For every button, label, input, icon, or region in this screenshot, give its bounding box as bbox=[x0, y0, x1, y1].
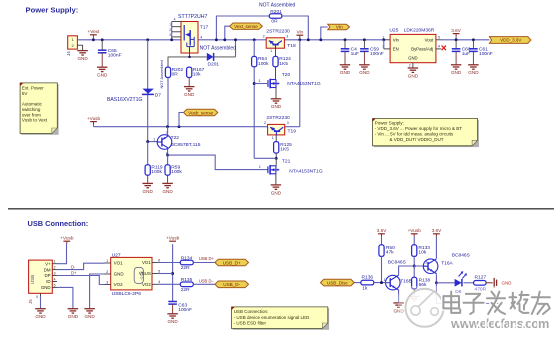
svg-text:GND: GND bbox=[408, 73, 419, 78]
svg-text:R136: R136 bbox=[362, 275, 374, 281]
svg-text:GND: GND bbox=[271, 104, 282, 109]
svg-text:5V: 5V bbox=[22, 91, 28, 96]
svg-text:100k: 100k bbox=[258, 61, 269, 67]
svg-text:USB D-: USB D- bbox=[199, 278, 214, 283]
svg-text:VO1: VO1 bbox=[142, 260, 151, 265]
svg-text:GND: GND bbox=[167, 319, 178, 324]
svg-text:47k: 47k bbox=[386, 250, 394, 256]
svg-text:GND: GND bbox=[41, 285, 51, 290]
svg-text:100nF: 100nF bbox=[479, 51, 493, 57]
svg-text:GND: GND bbox=[162, 189, 173, 194]
svg-text:USB D+: USB D+ bbox=[199, 256, 215, 261]
svg-text:ESD: ESD bbox=[139, 271, 144, 279]
svg-text:22R: 22R bbox=[181, 265, 190, 271]
svg-text:LDK220M36R: LDK220M36R bbox=[404, 28, 435, 34]
svg-text:100k: 100k bbox=[151, 169, 162, 175]
svg-text:3: 3 bbox=[287, 121, 289, 125]
svg-text:3.6V: 3.6V bbox=[451, 28, 462, 33]
svg-text:GND: GND bbox=[77, 56, 88, 61]
svg-text:3: 3 bbox=[106, 280, 108, 284]
svg-text:+Vusb: +Vusb bbox=[60, 236, 74, 241]
svg-text:V+: V+ bbox=[45, 261, 51, 266]
svg-text:USB_D-: USB_D- bbox=[223, 282, 240, 287]
svg-text:Power Supply:: Power Supply: bbox=[26, 6, 79, 15]
svg-text:100nF: 100nF bbox=[108, 53, 122, 59]
svg-text:BAS16XV2T1G: BAS16XV2T1G bbox=[107, 97, 142, 103]
svg-text:USB Connection:: USB Connection: bbox=[234, 309, 269, 314]
svg-text:3.6V: 3.6V bbox=[432, 228, 443, 233]
svg-text:DP: DP bbox=[44, 273, 50, 278]
svg-text:4: 4 bbox=[158, 280, 160, 284]
svg-text:0: 0 bbox=[36, 295, 38, 299]
svg-text:R127: R127 bbox=[475, 275, 487, 281]
svg-text:D201: D201 bbox=[208, 61, 220, 67]
svg-text:GND: GND bbox=[35, 314, 46, 319]
svg-text:5: 5 bbox=[438, 35, 440, 39]
svg-text:0R: 0R bbox=[271, 19, 278, 25]
svg-text:R134: R134 bbox=[181, 255, 193, 261]
svg-text:USB_Disc: USB_Disc bbox=[327, 280, 349, 285]
svg-text:4: 4 bbox=[54, 278, 56, 282]
svg-text:5: 5 bbox=[54, 283, 56, 287]
svg-text:GND: GND bbox=[143, 189, 154, 194]
svg-text:3: 3 bbox=[169, 33, 171, 37]
svg-text:100nF: 100nF bbox=[370, 51, 384, 57]
svg-text:+Vusb: +Vusb bbox=[166, 236, 180, 241]
svg-text:Vin: Vin bbox=[296, 30, 303, 35]
svg-text:USB Connection:: USB Connection: bbox=[28, 219, 89, 228]
svg-text:2: 2 bbox=[425, 260, 427, 264]
svg-text:Vext_sense: Vext_sense bbox=[234, 24, 258, 29]
svg-text:GND: GND bbox=[68, 314, 79, 319]
svg-text:2: 2 bbox=[409, 63, 411, 67]
svg-text:1: 1 bbox=[270, 49, 272, 53]
svg-text:NTA4153NT1G: NTA4153NT1G bbox=[289, 168, 323, 174]
svg-text:1: 1 bbox=[259, 165, 261, 169]
svg-text:1: 1 bbox=[54, 260, 56, 264]
svg-text:GND: GND bbox=[97, 73, 108, 78]
svg-text:1: 1 bbox=[169, 23, 171, 27]
svg-text:VO1: VO1 bbox=[114, 261, 124, 266]
svg-text:GND: GND bbox=[468, 70, 479, 75]
svg-text:4: 4 bbox=[438, 44, 440, 48]
svg-text:2: 2 bbox=[264, 121, 266, 125]
svg-text:2: 2 bbox=[54, 266, 56, 270]
svg-text:GND: GND bbox=[184, 92, 195, 97]
svg-text:T16B: T16B bbox=[400, 279, 412, 285]
svg-text:- USB device enumeration signa: - USB device enumeration signal LED bbox=[234, 315, 310, 320]
svg-text:USBLC6-2P6: USBLC6-2P6 bbox=[112, 291, 142, 297]
svg-text:over from: over from bbox=[22, 112, 41, 117]
svg-text:+Vusb: +Vusb bbox=[408, 228, 422, 233]
svg-text:+Vext: +Vext bbox=[87, 29, 100, 34]
svg-text:T22: T22 bbox=[171, 135, 180, 141]
svg-text:BC846S: BC846S bbox=[452, 252, 471, 258]
svg-text:6: 6 bbox=[158, 258, 160, 262]
svg-text:ByPass/Adj: ByPass/Adj bbox=[411, 47, 433, 52]
svg-text:Power Supply:: Power Supply: bbox=[375, 121, 404, 126]
svg-text:switching: switching bbox=[22, 107, 41, 112]
svg-text:1: 1 bbox=[272, 136, 274, 140]
svg-text:+Vusb: +Vusb bbox=[87, 116, 101, 121]
svg-text:5: 5 bbox=[158, 269, 160, 273]
svg-text:Vout: Vout bbox=[425, 38, 434, 43]
svg-text:J4: J4 bbox=[66, 51, 71, 56]
svg-text:22R: 22R bbox=[181, 287, 190, 293]
svg-text:1: 1 bbox=[384, 278, 386, 282]
svg-text:1uF: 1uF bbox=[462, 51, 470, 57]
svg-text:Vin: Vin bbox=[336, 25, 343, 31]
svg-text:DM: DM bbox=[44, 267, 51, 272]
svg-text:GND: GND bbox=[340, 70, 351, 75]
svg-text:T20: T20 bbox=[282, 72, 291, 78]
svg-text:D-: D- bbox=[71, 265, 76, 270]
svg-text:BC846S: BC846S bbox=[388, 259, 407, 265]
svg-text:2STR2230: 2STR2230 bbox=[266, 115, 290, 121]
svg-text:GND: GND bbox=[359, 70, 370, 75]
svg-text:GND: GND bbox=[408, 55, 418, 60]
svg-text:4: 4 bbox=[174, 18, 176, 22]
svg-text:GND: GND bbox=[451, 70, 462, 75]
svg-text:BC857BT,115: BC857BT,115 bbox=[171, 142, 201, 148]
svg-text:NTA4153NT1G: NTA4153NT1G bbox=[287, 81, 321, 87]
svg-text:1uF: 1uF bbox=[351, 51, 359, 57]
svg-text:Vin: Vin bbox=[393, 38, 400, 43]
svg-text:VO2: VO2 bbox=[142, 282, 151, 287]
svg-text:1K5: 1K5 bbox=[279, 61, 288, 67]
svg-text:0R: 0R bbox=[172, 72, 179, 78]
svg-text:1: 1 bbox=[106, 259, 108, 263]
svg-text:GND: GND bbox=[84, 314, 95, 319]
svg-text:100nF: 100nF bbox=[178, 307, 192, 313]
svg-text:GND: GND bbox=[271, 190, 282, 195]
svg-text:- VDD_3.6V ... Power supply fo: - VDD_3.6V ... Power supply for micro & … bbox=[375, 126, 463, 131]
svg-text:ID: ID bbox=[46, 279, 50, 284]
svg-text:10k: 10k bbox=[193, 72, 201, 78]
svg-text:USB: USB bbox=[30, 275, 35, 284]
svg-text:T19: T19 bbox=[288, 128, 297, 134]
svg-text:VO2: VO2 bbox=[114, 282, 124, 287]
svg-text:2: 2 bbox=[106, 270, 108, 274]
svg-text:NOT Assembled: NOT Assembled bbox=[200, 45, 237, 51]
svg-text:D+: D+ bbox=[71, 270, 77, 275]
svg-text:VDD_3.6V: VDD_3.6V bbox=[500, 38, 521, 43]
svg-text:T17: T17 bbox=[200, 25, 209, 31]
svg-text:T21: T21 bbox=[282, 158, 291, 164]
svg-text:Automatic: Automatic bbox=[22, 102, 43, 107]
svg-text:GND: GND bbox=[502, 281, 513, 286]
svg-text:Ext. Power: Ext. Power bbox=[22, 86, 44, 91]
svg-text:R135: R135 bbox=[181, 277, 193, 283]
svg-text:100k: 100k bbox=[171, 169, 182, 175]
svg-text:EN: EN bbox=[393, 47, 399, 52]
svg-text:2STR2230: 2STR2230 bbox=[266, 28, 290, 34]
svg-text:- Vin ... 5V for Idd meas. ana: - Vin ... 5V for Idd meas. analog circui… bbox=[375, 132, 454, 137]
svg-text:2: 2 bbox=[169, 28, 171, 32]
svg-text:4: 4 bbox=[200, 35, 202, 39]
svg-text:T18: T18 bbox=[287, 43, 296, 49]
svg-text:1K5: 1K5 bbox=[280, 147, 289, 153]
svg-text:U25: U25 bbox=[389, 28, 398, 34]
svg-text:www.elecfans.com: www.elecfans.com bbox=[450, 316, 549, 331]
svg-text:1: 1 bbox=[259, 79, 261, 83]
svg-text:Vusb_sense: Vusb_sense bbox=[188, 110, 214, 115]
svg-text:STT7P2UH7: STT7P2UH7 bbox=[178, 14, 208, 20]
svg-text:10k: 10k bbox=[418, 250, 426, 256]
svg-text:3: 3 bbox=[286, 35, 288, 39]
svg-text:- USB ESD filter: - USB ESD filter bbox=[234, 320, 267, 325]
svg-text:& VDD_DUT/ VDDIO_DUT: & VDD_DUT/ VDDIO_DUT bbox=[390, 137, 444, 142]
svg-text:2: 2 bbox=[263, 35, 265, 39]
svg-text:D7: D7 bbox=[155, 93, 161, 99]
svg-text:NOT Assembled: NOT Assembled bbox=[159, 60, 164, 88]
svg-text:USB_D+: USB_D+ bbox=[223, 260, 241, 265]
svg-text:1k: 1k bbox=[362, 285, 368, 291]
svg-text:NOT Assembled: NOT Assembled bbox=[259, 2, 296, 8]
svg-text:Vusb to Vext: Vusb to Vext bbox=[22, 118, 48, 123]
svg-text:3: 3 bbox=[54, 272, 56, 276]
svg-text:T16A: T16A bbox=[441, 260, 453, 266]
svg-text:3.6V: 3.6V bbox=[377, 228, 388, 233]
svg-text:J5: J5 bbox=[28, 299, 33, 304]
svg-text:GND: GND bbox=[114, 272, 125, 277]
